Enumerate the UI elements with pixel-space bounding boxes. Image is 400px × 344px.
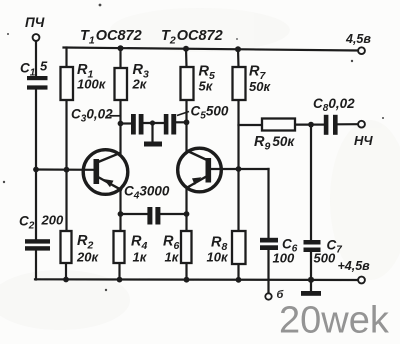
- resistor R9: [262, 119, 295, 131]
- ground between C3 and C5: [144, 123, 162, 147]
- wire R9 row: [239, 123, 312, 126]
- svg-text:+4,5в: +4,5в: [338, 259, 371, 273]
- capacitor C8: [324, 115, 338, 135]
- svg-text:5к: 5к: [199, 79, 214, 94]
- capacitor C3: [131, 114, 144, 135]
- label C5 value with leader: [177, 104, 229, 122]
- wire input column: [35, 41, 37, 280]
- wire T1 emitter to R4: [120, 191, 121, 280]
- label R7 value: [249, 64, 271, 95]
- label R8 value: [207, 235, 229, 265]
- label b terminal: [277, 289, 285, 301]
- label C6 value: [273, 237, 298, 266]
- svg-text:10к: 10к: [207, 250, 229, 265]
- label C1 value: [20, 59, 48, 79]
- scan specks: [3, 4, 384, 292]
- wire C3 C5 link: [121, 122, 187, 123]
- wire R7-R8 column: [237, 48, 240, 280]
- resistor R7: [233, 67, 246, 100]
- svg-text:4,5в: 4,5в: [345, 32, 371, 46]
- resistor R4: [114, 231, 125, 263]
- svg-text:20wek: 20wek: [279, 300, 390, 342]
- resistor R1: [61, 67, 74, 100]
- resistor R8: [232, 231, 246, 264]
- terminal PCH input: [33, 34, 40, 41]
- wire top bus: [64, 48, 359, 51]
- capacitor C7: [304, 240, 321, 252]
- label +4.5v bottom: [338, 259, 371, 273]
- wire R1-R2 column: [65, 48, 68, 280]
- svg-text:1к: 1к: [165, 250, 180, 265]
- label R9 value: [254, 134, 295, 153]
- label NCH: [354, 133, 373, 148]
- svg-text:100: 100: [273, 251, 295, 266]
- label C4 value: [124, 184, 170, 202]
- svg-text:100к: 100к: [77, 77, 107, 92]
- svg-text:ПЧ: ПЧ: [25, 15, 45, 30]
- label C2 value: [19, 213, 64, 232]
- svg-text:500: 500: [314, 251, 336, 266]
- wire C8 output: [311, 123, 358, 126]
- label R4 value: [131, 234, 148, 265]
- label C3 value with leader: [71, 107, 120, 125]
- label R6 value: [163, 234, 180, 265]
- label T2 OC872: [161, 28, 223, 47]
- svg-text:1к: 1к: [133, 250, 148, 265]
- label C7 value: [314, 238, 343, 266]
- svg-text:20к: 20к: [76, 250, 99, 265]
- label PCH: [25, 15, 45, 30]
- label R3 value: [132, 62, 149, 92]
- wire C6 to terminal: [267, 250, 269, 293]
- label R1 value: [77, 62, 107, 92]
- label T1 OC872: [80, 28, 142, 47]
- resistor R3: [115, 68, 128, 100]
- label C8 value: [313, 96, 355, 114]
- capacitor C4: [147, 207, 160, 225]
- wire bottom bus: [35, 278, 358, 281]
- wire R5 column: [185, 48, 188, 151]
- svg-text:НЧ: НЧ: [354, 133, 373, 148]
- svg-text:200: 200: [41, 213, 64, 228]
- label R5 value: [199, 64, 215, 94]
- wire output column: [310, 125, 312, 280]
- svg-text:2к: 2к: [132, 77, 148, 92]
- capacitor C1: [27, 76, 48, 90]
- svg-text:50к: 50к: [249, 79, 271, 94]
- wire C4 row: [121, 213, 187, 215]
- transistor T1: [83, 150, 128, 195]
- watermark 20wek: [279, 300, 390, 342]
- wire T2 emitter to R6: [185, 188, 187, 280]
- capacitor C2: [25, 239, 50, 250]
- terminal b (AGC): [265, 293, 271, 299]
- terminal NCH output: [358, 121, 365, 128]
- terminal +4.5v bottom: [358, 277, 365, 284]
- svg-text:5: 5: [40, 59, 48, 74]
- label R2 value: [76, 233, 99, 265]
- wire T2 base to C6: [211, 169, 269, 238]
- ground below bottom bus: [301, 280, 321, 296]
- transistor T2: [178, 148, 222, 192]
- wire R3 column: [119, 48, 121, 153]
- capacitor C5: [164, 114, 176, 135]
- label 4.5v top: [345, 32, 371, 46]
- resistor R2: [61, 231, 72, 263]
- capacitor C6: [260, 238, 278, 250]
- resistor R5: [181, 67, 194, 100]
- terminal 4.5v top: [358, 47, 365, 54]
- wire T1 base: [36, 168, 95, 171]
- resistor R6: [181, 231, 192, 263]
